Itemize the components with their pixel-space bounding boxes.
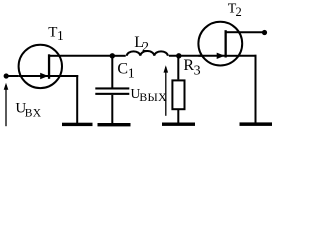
node output terminal (262, 30, 267, 35)
svg-text:1: 1 (57, 28, 64, 43)
label R3 (183, 57, 200, 79)
node junction 1 (110, 53, 115, 58)
label T2 (228, 2, 242, 19)
wire (238, 31, 265, 33)
arrow Uвых (164, 65, 169, 116)
ground (162, 123, 195, 126)
label C1 (117, 61, 134, 82)
svg-text:ВЫХ: ВЫХ (139, 90, 167, 104)
node junction 2 (176, 53, 181, 58)
svg-text:2: 2 (142, 40, 149, 55)
label Uвых (131, 86, 168, 104)
svg-text:1: 1 (128, 66, 135, 81)
capacitor C1 (95, 56, 129, 123)
label L2 (134, 34, 149, 55)
svg-text:2: 2 (236, 5, 242, 19)
svg-text:3: 3 (194, 63, 201, 78)
svg-text:T: T (48, 25, 57, 41)
label Uвх (15, 100, 41, 119)
resistor R3 (172, 80, 184, 109)
inductor L2 (127, 51, 168, 56)
wire (177, 109, 179, 123)
wire (169, 55, 202, 57)
svg-text:C: C (117, 61, 128, 78)
wire (62, 75, 78, 123)
label T1 (48, 25, 64, 43)
ground (98, 123, 131, 126)
wire (177, 56, 179, 80)
ground (240, 122, 273, 126)
wire (61, 55, 112, 57)
node input terminal (4, 73, 9, 78)
ground (62, 123, 93, 126)
arrow Uвх (4, 83, 9, 126)
wire (112, 55, 125, 57)
svg-text:ВХ: ВХ (25, 108, 42, 120)
transistor T2 (198, 22, 242, 66)
wire (239, 55, 257, 123)
transistor T1 (19, 45, 62, 88)
wire (6, 75, 19, 77)
